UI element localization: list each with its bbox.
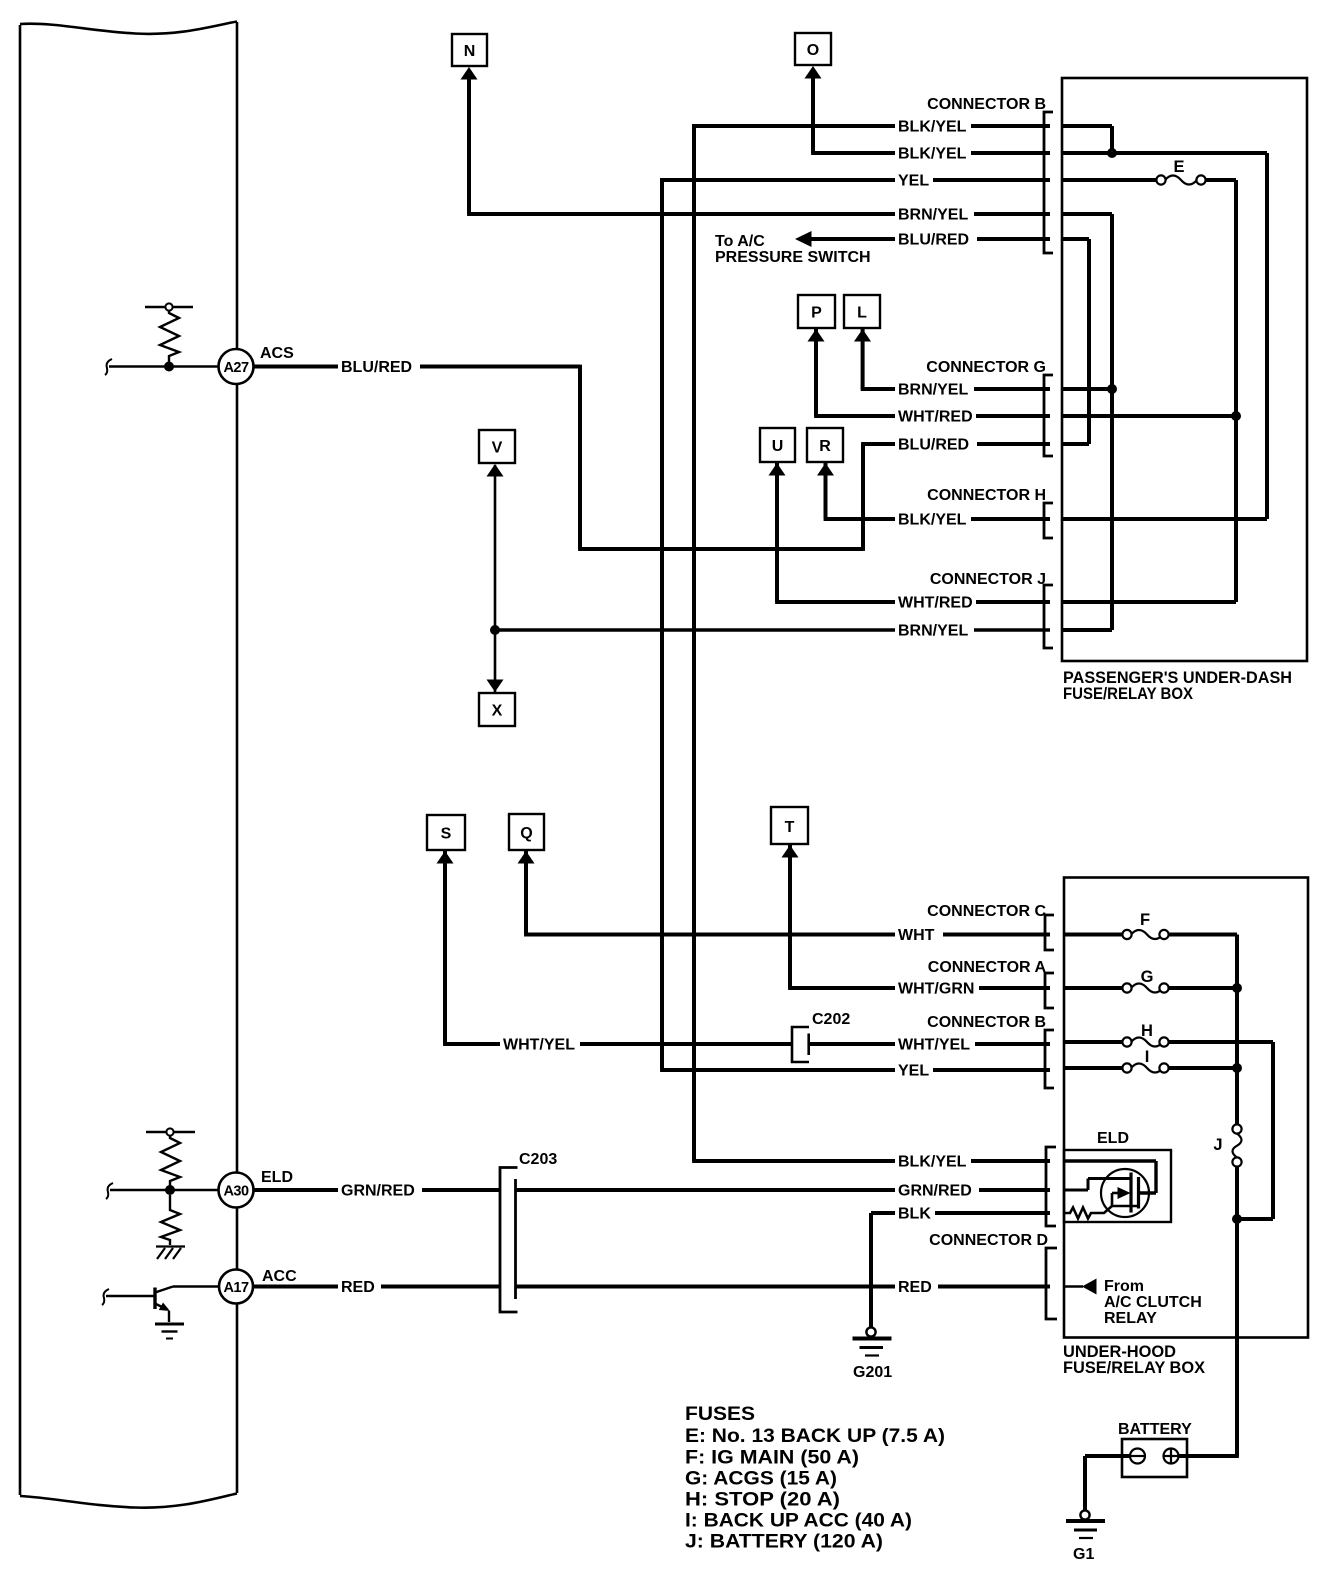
label BLK pin ELD3	[895, 1205, 935, 1222]
node N	[452, 34, 487, 80]
svg-text:WHT/RED: WHT/RED	[898, 595, 973, 612]
wire	[1083, 1456, 1087, 1510]
wire bus down to fuse J	[1235, 935, 1239, 1126]
resistor pull-up at A27	[145, 307, 193, 362]
wire fuse F out	[1169, 933, 1238, 937]
svg-text:BLU/RED: BLU/RED	[341, 359, 412, 376]
svg-text:I: BACK UP ACC (40 A): I: BACK UP ACC (40 A)	[685, 1510, 912, 1532]
svg-text:T: T	[785, 819, 795, 836]
svg-text:F: F	[1140, 911, 1150, 929]
wire	[814, 328, 818, 416]
transistor Q (driver)	[106, 1287, 219, 1323]
wire	[1265, 153, 1269, 519]
wire BLK/YEL H	[1062, 517, 1267, 521]
under-hood fuse/relay box	[1064, 878, 1308, 1338]
connector B bracket	[1044, 112, 1053, 253]
wire BLK pin with resistor	[1064, 1206, 1112, 1219]
positive terminal	[1164, 1449, 1179, 1464]
svg-text:A/C CLUTCH: A/C CLUTCH	[1104, 1294, 1202, 1311]
wire WHT/RED G	[1062, 414, 1236, 418]
node U	[760, 428, 795, 476]
svg-text:G201: G201	[853, 1364, 892, 1381]
wire WHT/RED from P	[814, 328, 1050, 416]
junction	[490, 625, 500, 635]
label BLK/YEL pin ELD1	[895, 1153, 971, 1170]
wire battery negative	[1085, 1454, 1131, 1458]
svg-text:CONNECTOR B: CONNECTOR B	[927, 96, 1046, 113]
wire WHT to fuse F	[1064, 933, 1123, 937]
svg-text:I: I	[1145, 1048, 1150, 1066]
fuse legend	[685, 1403, 945, 1553]
connector C202	[792, 1011, 850, 1062]
wire	[811, 77, 815, 153]
svg-text:ELD: ELD	[1097, 1130, 1129, 1147]
svg-text:RELAY: RELAY	[1104, 1310, 1157, 1327]
svg-text:BLK: BLK	[898, 1206, 931, 1223]
wire BRN/YEL from L	[861, 328, 1050, 389]
wire	[788, 845, 792, 988]
svg-text:C203: C203	[519, 1151, 557, 1168]
svg-text:C202: C202	[812, 1011, 850, 1028]
wire BLU/RED from A27	[253, 365, 580, 369]
wire	[692, 1159, 1050, 1163]
wires inside under-dash box	[1062, 126, 1267, 630]
label WHT pin C1	[895, 926, 943, 943]
svg-text:BLU/RED: BLU/RED	[898, 437, 969, 454]
svg-text:To A/C: To A/C	[715, 233, 765, 250]
svg-text:From: From	[1104, 1278, 1144, 1295]
svg-text:RED: RED	[341, 1279, 375, 1296]
svg-text:CONNECTOR H: CONNECTOR H	[927, 487, 1046, 504]
svg-text:ACS: ACS	[260, 345, 294, 362]
wire WHT/GRN from T	[788, 845, 1050, 988]
junction	[1232, 1214, 1242, 1224]
svg-text:X: X	[492, 703, 503, 720]
MOSFET gate bar	[1129, 1173, 1132, 1213]
ground G1	[1066, 1510, 1105, 1563]
svg-text:CONNECTOR G: CONNECTOR G	[926, 359, 1046, 376]
node T	[771, 807, 808, 858]
svg-text:BLK/YEL: BLK/YEL	[898, 512, 967, 529]
wire WHT from Q	[524, 851, 1050, 935]
wire	[1234, 180, 1238, 602]
svg-text:L: L	[857, 305, 867, 322]
svg-text:E: No. 13 BACK UP (7.5 A): E: No. 13 BACK UP (7.5 A)	[685, 1425, 945, 1447]
label GRN/RED	[338, 1182, 422, 1199]
wire	[692, 124, 696, 1161]
wire BLU/RED A27 to connector G (via corners)	[578, 365, 1050, 551]
wire	[524, 851, 528, 935]
label RED	[895, 1278, 938, 1295]
wire	[861, 442, 1050, 446]
wire BRN/YEL G	[1062, 387, 1112, 391]
label BRN/YEL pin B4	[895, 206, 974, 223]
passenger's under-dash fuse/relay box	[1062, 78, 1307, 661]
wire BLU/RED G	[1062, 442, 1089, 446]
wire	[660, 178, 1050, 182]
svg-text:GRN/RED: GRN/RED	[898, 1183, 972, 1200]
wire BLK/YEL pin1	[1062, 124, 1112, 128]
MOSFET source loop	[1112, 1193, 1139, 1206]
svg-text:S: S	[441, 826, 452, 843]
svg-text:R: R	[819, 438, 831, 455]
svg-text:RED: RED	[898, 1279, 932, 1296]
label WHT/YEL left	[500, 1036, 580, 1053]
label WHT/GRN pin A1	[895, 980, 979, 997]
node A30	[106, 1128, 500, 1259]
wire continuation hook	[106, 1183, 113, 1199]
label BLK/YEL pin B1	[895, 118, 971, 135]
svg-text:WHT: WHT	[898, 927, 935, 944]
wire battery positive	[1178, 1454, 1239, 1458]
svg-text:PRESSURE SWITCH: PRESSURE SWITCH	[715, 249, 871, 266]
svg-text:O: O	[807, 42, 819, 59]
svg-text:BATTERY: BATTERY	[1118, 1421, 1192, 1438]
ELD connector bracket	[1046, 1147, 1056, 1226]
wire	[660, 1068, 1050, 1072]
wire GRN/RED after C203	[516, 1188, 1051, 1192]
svg-text:CONNECTOR A: CONNECTOR A	[928, 959, 1047, 976]
svg-text:H: H	[1141, 1022, 1153, 1040]
label RED	[338, 1278, 381, 1295]
svg-text:E: E	[1173, 158, 1184, 176]
MOSFET channel bar	[1137, 1177, 1140, 1209]
wire RED stub and from-relay arrow	[1064, 1285, 1083, 1288]
wire	[809, 1042, 1050, 1046]
wire BRN/YEL J	[1062, 628, 1112, 632]
wire RED after C203	[516, 1285, 1051, 1289]
connector D bracket	[1046, 1248, 1057, 1319]
wire	[578, 365, 582, 549]
svg-text:Q: Q	[520, 825, 532, 842]
junction	[1231, 411, 1241, 421]
ground	[155, 1324, 184, 1339]
svg-text:P: P	[811, 305, 822, 322]
connector C203	[500, 1151, 1050, 1312]
wire fuse G out	[1169, 986, 1238, 990]
svg-text:FUSES: FUSES	[685, 1403, 755, 1425]
svg-text:BLK/YEL: BLK/YEL	[898, 1154, 967, 1171]
svg-text:G: ACGS (15 A): G: ACGS (15 A)	[685, 1468, 837, 1490]
fuse I	[1122, 1048, 1168, 1073]
wire YEL to fuse I	[1064, 1066, 1123, 1070]
wire V to X with BRN/YEL tee	[495, 465, 1050, 692]
svg-text:CONNECTOR B: CONNECTOR B	[927, 1014, 1046, 1031]
wire BLK/YEL pin to drain	[1064, 1161, 1156, 1193]
label BLK/YEL pin B2	[895, 145, 971, 162]
node A17	[102, 1268, 500, 1339]
svg-text:H: STOP (20 A): H: STOP (20 A)	[685, 1489, 840, 1511]
wire	[861, 444, 865, 551]
wire	[1110, 214, 1114, 630]
label WHT/YEL pin B1	[895, 1036, 975, 1053]
wire	[443, 851, 447, 1044]
wire fuse I out	[1169, 1066, 1238, 1070]
svg-text:V: V	[492, 440, 503, 457]
svg-text:A27: A27	[223, 360, 249, 376]
svg-text:BLK/YEL: BLK/YEL	[898, 146, 967, 163]
ECM/PCM module box (torn edges)	[20, 22, 237, 1508]
connector C bracket	[1045, 915, 1054, 950]
svg-text:A30: A30	[223, 1184, 249, 1200]
svg-text:ELD: ELD	[261, 1169, 293, 1186]
label GRN/RED	[895, 1182, 979, 1199]
wire	[494, 465, 497, 692]
wire	[811, 151, 1050, 155]
junction	[1107, 148, 1117, 158]
label BRN/YEL pin G1	[895, 381, 974, 398]
wire	[110, 1189, 219, 1192]
svg-text:U: U	[772, 438, 784, 455]
node Q	[509, 814, 544, 864]
arrow to A/C pressure switch	[795, 231, 812, 247]
ELD unit	[1064, 1130, 1171, 1222]
svg-text:YEL: YEL	[898, 1063, 929, 1080]
wire	[871, 1211, 1050, 1215]
wires inside under-hood box	[1064, 935, 1273, 1457]
node O	[795, 33, 831, 79]
wire	[20, 1494, 237, 1508]
label BLU/RED pin G3	[895, 436, 977, 453]
junction	[165, 1185, 175, 1195]
wire	[467, 78, 471, 214]
wire	[869, 1213, 873, 1328]
ground (hatched)	[156, 1247, 185, 1260]
wire fuse H out	[1169, 1040, 1274, 1044]
fuse G	[1122, 968, 1168, 993]
connector G bracket	[1044, 375, 1053, 456]
svg-text:BRN/YEL: BRN/YEL	[898, 623, 968, 640]
wire WHT/YEL to fuse H	[1064, 1040, 1123, 1044]
fuse E	[1156, 158, 1205, 185]
svg-text:FUSE/RELAY BOX: FUSE/RELAY BOX	[1063, 685, 1193, 703]
wire YEL pin3 to fuse E	[1062, 178, 1157, 182]
svg-text:CONNECTOR C: CONNECTOR C	[927, 903, 1046, 920]
negative terminal	[1130, 1449, 1145, 1464]
wire	[578, 547, 863, 551]
svg-text:ACC: ACC	[262, 1268, 297, 1285]
wire WHT/YEL from S	[443, 851, 1050, 1044]
wire	[1271, 1042, 1275, 1219]
fuse F	[1122, 911, 1168, 939]
connector J bracket	[1044, 585, 1053, 648]
svg-text:WHT/GRN: WHT/GRN	[898, 981, 974, 998]
wire	[775, 600, 1050, 604]
junction	[1232, 983, 1242, 993]
label BLK/YEL pin H1	[895, 511, 971, 528]
wire BRN/YEL to connector J	[495, 628, 1050, 631]
svg-text:BLK/YEL: BLK/YEL	[898, 119, 967, 136]
resistor pull-up at A30	[146, 1132, 195, 1186]
wire BLK/YEL from O	[811, 77, 1050, 153]
svg-text:FUSE/RELAY BOX: FUSE/RELAY BOX	[1063, 1359, 1205, 1377]
svg-text:N: N	[464, 43, 476, 60]
wire	[467, 212, 1050, 216]
wire BLU/RED to A/C pressure switch	[810, 237, 1050, 241]
svg-text:G1: G1	[1073, 1546, 1094, 1563]
svg-text:J: J	[1213, 1136, 1222, 1154]
wire	[861, 387, 1050, 391]
label WHT/RED pin G2	[895, 408, 976, 425]
wire BLK/YEL pin2	[1062, 151, 1267, 155]
MOSFET gate wire	[1064, 1179, 1130, 1191]
wire	[861, 328, 865, 389]
connector B bracket (under-hood)	[1045, 1030, 1054, 1088]
svg-text:BRN/YEL: BRN/YEL	[898, 382, 968, 399]
wire	[236, 22, 239, 1493]
svg-text:YEL: YEL	[898, 173, 929, 190]
wire continuation hook	[102, 1289, 109, 1305]
wire	[824, 463, 828, 519]
wire	[660, 178, 664, 1070]
wire GRN/RED from A30	[253, 1188, 500, 1192]
svg-text:G: G	[1141, 968, 1154, 986]
wire	[1110, 126, 1114, 153]
battery	[1085, 1421, 1239, 1510]
junction	[164, 362, 174, 372]
fuse J (vertical)	[1213, 1124, 1241, 1166]
emitter arrowhead	[159, 1303, 170, 1312]
junction	[1107, 384, 1117, 394]
svg-text:WHT/YEL: WHT/YEL	[898, 1037, 970, 1054]
wire fuse J to battery	[1235, 1166, 1239, 1456]
svg-text:CONNECTOR J: CONNECTOR J	[930, 571, 1046, 588]
wire WHT/RED from U	[775, 463, 1050, 602]
wire	[775, 463, 779, 602]
wire BLK/YEL trunk	[692, 124, 1050, 1161]
svg-text:WHT/YEL: WHT/YEL	[503, 1037, 575, 1054]
wire WHT/GRN to fuse G	[1064, 986, 1123, 990]
label BLU/RED	[338, 358, 420, 375]
wire	[1087, 239, 1091, 444]
node L	[844, 295, 880, 342]
wire BRN/YEL from N	[467, 78, 1050, 214]
wire	[824, 517, 1050, 521]
wire	[443, 1042, 792, 1046]
node V	[479, 430, 515, 477]
wire BLK to G201	[871, 1213, 1050, 1328]
label BLU/RED pin B5	[895, 231, 977, 248]
wire continuation hook	[105, 359, 112, 375]
svg-text:BLU/RED: BLU/RED	[898, 232, 969, 249]
ground G201	[853, 1327, 893, 1381]
MOSFET circle	[1101, 1169, 1149, 1217]
MOSFET body arrow	[1112, 1192, 1120, 1195]
wire fuse E out	[1206, 178, 1237, 182]
wire	[109, 365, 219, 368]
wire	[19, 25, 22, 1495]
node A27	[105, 303, 580, 384]
label WHT/RED pin J1	[895, 594, 976, 611]
node P	[798, 295, 835, 342]
wire	[1237, 1217, 1273, 1221]
wire	[692, 124, 1050, 128]
wire RED from A17	[253, 1285, 500, 1289]
wire	[524, 933, 1050, 937]
svg-text:J: BATTERY (120 A): J: BATTERY (120 A)	[685, 1531, 883, 1553]
fuse H	[1122, 1022, 1168, 1047]
resistor to ground below A30	[161, 1195, 180, 1245]
node R	[807, 428, 843, 476]
wire	[20, 22, 237, 34]
svg-text:WHT/RED: WHT/RED	[898, 409, 973, 426]
node S	[427, 815, 465, 864]
junction	[1232, 1063, 1242, 1073]
svg-text:BRN/YEL: BRN/YEL	[898, 207, 968, 224]
wire	[788, 986, 1050, 990]
wire	[814, 414, 1050, 418]
wire BRN/YEL pin4	[1062, 212, 1112, 216]
svg-text:CONNECTOR D: CONNECTOR D	[929, 1232, 1048, 1249]
connector A bracket	[1045, 973, 1054, 1008]
wire BLK/YEL from R	[824, 463, 1050, 519]
node X	[479, 680, 515, 727]
label YEL pin B3	[895, 172, 933, 189]
wire WHT/RED J	[1062, 600, 1236, 604]
label BRN/YEL pin J2	[895, 622, 974, 639]
label YEL pin B2	[895, 1062, 933, 1079]
svg-text:A17: A17	[223, 1280, 249, 1296]
wire YEL trunk	[660, 178, 1050, 1070]
wire BLU/RED pin5	[1062, 237, 1089, 241]
connector H bracket	[1044, 503, 1053, 538]
svg-text:F: IG MAIN (50 A): F: IG MAIN (50 A)	[685, 1447, 859, 1469]
svg-text:GRN/RED: GRN/RED	[341, 1183, 415, 1200]
